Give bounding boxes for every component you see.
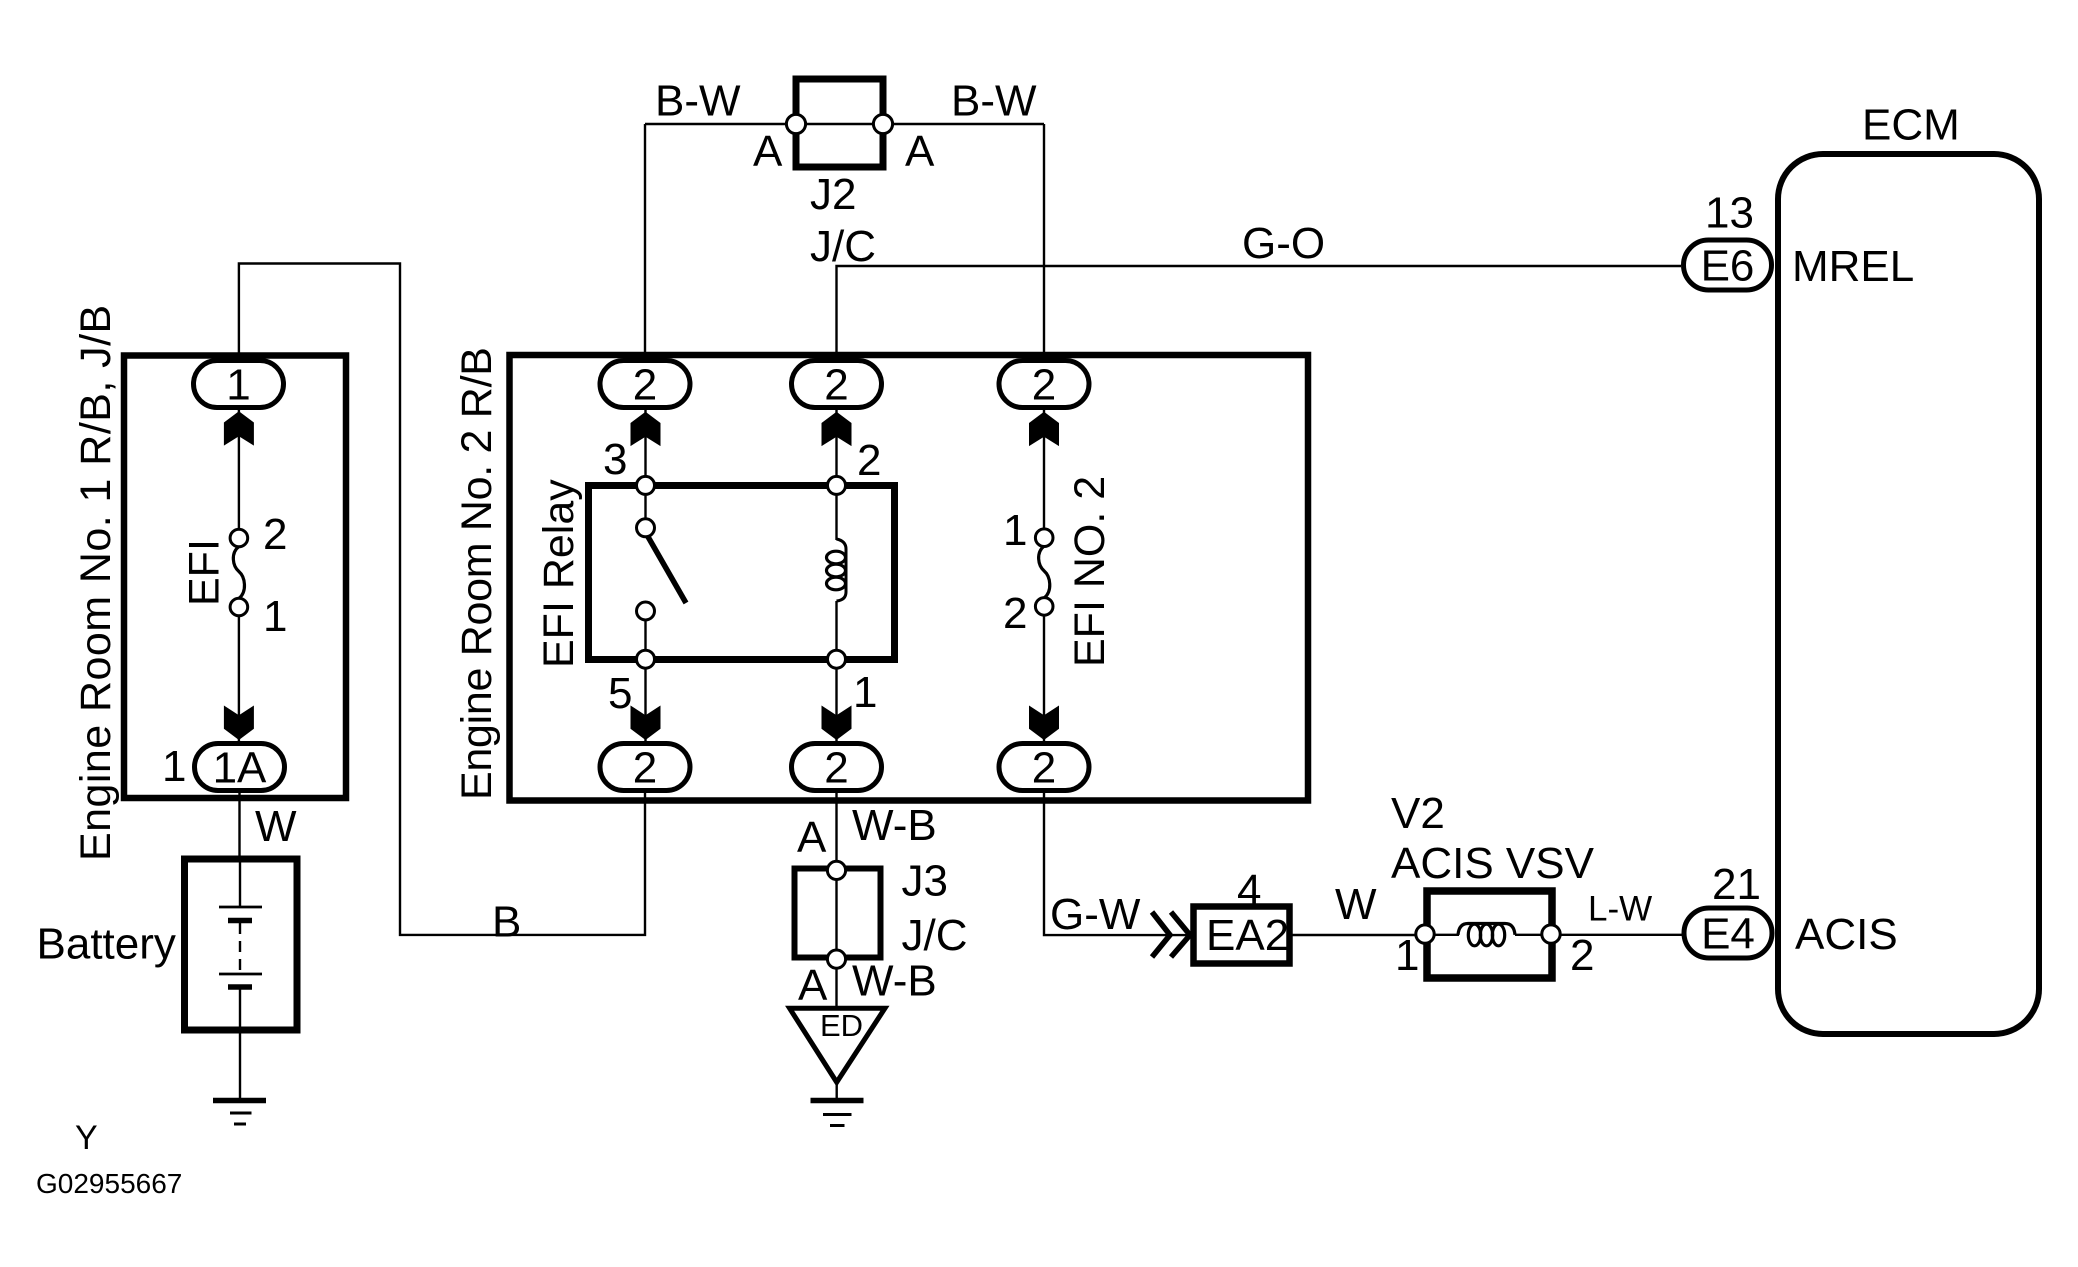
svg-text:2: 2 (1003, 589, 1027, 638)
svg-text:1: 1 (853, 668, 877, 717)
svg-text:2: 2 (1570, 931, 1594, 980)
svg-text:MREL: MREL (1792, 242, 1914, 291)
svg-text:1: 1 (263, 592, 287, 641)
svg-text:Y: Y (75, 1119, 98, 1157)
svg-text:21: 21 (1712, 860, 1761, 909)
svg-text:Battery: Battery (37, 920, 176, 969)
svg-text:ACIS: ACIS (1795, 910, 1898, 959)
svg-text:2: 2 (824, 361, 848, 410)
svg-text:J/C: J/C (810, 222, 876, 271)
svg-text:J3: J3 (902, 857, 948, 906)
svg-text:2: 2 (263, 510, 287, 559)
svg-text:1: 1 (1003, 506, 1027, 555)
svg-text:1A: 1A (213, 744, 267, 793)
svg-text:E6: E6 (1701, 242, 1755, 291)
svg-text:V2: V2 (1391, 789, 1445, 838)
svg-text:J2: J2 (810, 170, 856, 219)
svg-text:A: A (753, 127, 783, 176)
svg-text:W-B: W-B (852, 801, 937, 850)
svg-text:B: B (492, 898, 521, 947)
svg-text:13: 13 (1705, 189, 1754, 238)
svg-text:B-W: B-W (951, 77, 1037, 126)
svg-text:2: 2 (824, 744, 848, 793)
svg-text:EFI NO. 2: EFI NO. 2 (1066, 476, 1114, 667)
svg-text:G02955667: G02955667 (36, 1168, 182, 1199)
svg-text:W-B: W-B (852, 957, 937, 1006)
svg-text:1: 1 (162, 742, 186, 791)
svg-text:2: 2 (633, 361, 657, 410)
svg-text:J/C: J/C (902, 911, 968, 960)
svg-text:A: A (905, 127, 935, 176)
svg-text:1: 1 (1395, 931, 1419, 980)
svg-text:EFI: EFI (181, 539, 229, 606)
svg-text:G-O: G-O (1242, 219, 1325, 268)
svg-text:Engine Room No. 2 R/B: Engine Room No. 2 R/B (453, 347, 501, 800)
svg-text:L-W: L-W (1588, 890, 1652, 929)
svg-text:1: 1 (226, 361, 250, 410)
svg-text:G-W: G-W (1050, 890, 1141, 939)
svg-text:4: 4 (1237, 866, 1261, 915)
svg-text:Engine Room No. 1 R/B, J/B: Engine Room No. 1 R/B, J/B (72, 304, 120, 861)
svg-text:ECM: ECM (1862, 101, 1960, 150)
svg-text:3: 3 (603, 435, 627, 484)
svg-text:ACIS VSV: ACIS VSV (1391, 839, 1595, 888)
svg-text:2: 2 (1032, 744, 1056, 793)
svg-text:W: W (1335, 880, 1377, 929)
svg-text:2: 2 (633, 744, 657, 793)
svg-text:EFI Relay: EFI Relay (535, 479, 583, 668)
svg-text:B-W: B-W (655, 77, 741, 126)
svg-text:A: A (797, 813, 827, 862)
svg-text:W: W (255, 802, 297, 851)
svg-text:2: 2 (1032, 361, 1056, 410)
svg-text:2: 2 (857, 436, 881, 485)
svg-text:ED: ED (820, 1008, 863, 1043)
svg-text:A: A (798, 961, 828, 1010)
svg-text:5: 5 (608, 669, 632, 718)
svg-text:EA2: EA2 (1206, 911, 1289, 960)
svg-text:E4: E4 (1701, 910, 1755, 959)
